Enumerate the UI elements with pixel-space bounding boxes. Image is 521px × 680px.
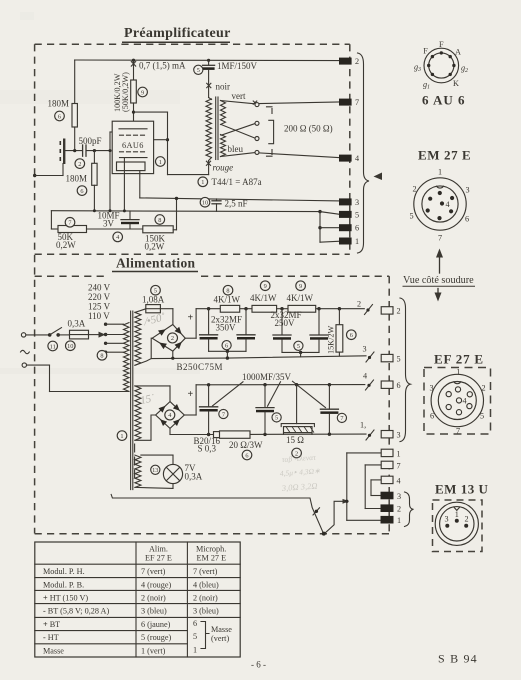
svg-text:T44/1 = A87a: T44/1 = A87a xyxy=(212,177,262,187)
pencil annotations bottom xyxy=(280,453,322,493)
svg-text:3V: 3V xyxy=(103,218,115,228)
svg-text:2: 2 xyxy=(355,57,359,66)
connection table xyxy=(35,542,240,657)
wire bus to jacks 1 xyxy=(345,453,381,520)
capacitor 1000MF second xyxy=(256,385,281,435)
svg-text:Masse: Masse xyxy=(43,647,64,656)
preamp connector pin 7 xyxy=(339,98,359,107)
svg-text:noir: noir xyxy=(216,82,231,92)
svg-text:5: 5 xyxy=(355,210,359,219)
wire chassis return xyxy=(111,495,349,536)
svg-text:4: 4 xyxy=(355,154,359,163)
output jack 2 xyxy=(357,300,401,316)
transformer T44/1 secondary coil upper xyxy=(221,101,226,125)
svg-text:8: 8 xyxy=(100,353,103,360)
resistor 4K/1W second xyxy=(250,281,277,312)
svg-text:1: 1 xyxy=(397,449,401,458)
circled ref 5 xyxy=(194,65,203,74)
svg-text:6: 6 xyxy=(430,412,434,421)
svg-text:2 (noir): 2 (noir) xyxy=(141,593,166,602)
svg-text:3: 3 xyxy=(355,198,359,207)
output jack 1 xyxy=(381,449,400,458)
preamp connector pin 4 xyxy=(339,154,359,163)
svg-text:Modul. P. B.: Modul. P. B. xyxy=(43,580,84,589)
svg-text:1,: 1, xyxy=(360,421,366,430)
svg-text:4: 4 xyxy=(397,476,401,485)
fuse 1,08A xyxy=(135,285,173,312)
switch contact xyxy=(48,328,70,337)
svg-text:3: 3 xyxy=(429,384,433,393)
pilot lamp 7V 0,3A xyxy=(135,455,203,488)
svg-text:4: 4 xyxy=(445,200,449,209)
circled ref 2 xyxy=(75,159,85,169)
voltage tap labels xyxy=(88,283,111,322)
svg-text:1: 1 xyxy=(397,516,401,525)
svg-text:2,5 nF: 2,5 nF xyxy=(225,199,248,209)
svg-text:4K/1W: 4K/1W xyxy=(214,294,241,304)
svg-text:11: 11 xyxy=(50,343,56,350)
svg-text:6: 6 xyxy=(465,215,469,224)
svg-text:Alimentation: Alimentation xyxy=(116,256,196,271)
preamp enclosure dashed border xyxy=(35,44,350,533)
svg-text:220 V: 220 V xyxy=(88,292,111,302)
svg-text:7: 7 xyxy=(68,220,71,227)
transformer BT secondary xyxy=(135,386,141,440)
svg-text:bleu: bleu xyxy=(228,144,244,154)
svg-text:9: 9 xyxy=(299,283,302,290)
tube socket EF 27 E xyxy=(424,352,491,436)
test point X 0,7 mA xyxy=(131,61,186,71)
svg-text:5: 5 xyxy=(193,632,197,641)
svg-text:6: 6 xyxy=(355,224,359,233)
svg-text:4: 4 xyxy=(462,397,466,406)
preamp connector pin 5 xyxy=(339,210,359,219)
alimentation enclosure dashed border xyxy=(35,276,390,534)
svg-text:Microph.: Microph. xyxy=(196,545,226,554)
svg-text:7: 7 xyxy=(222,411,225,418)
svg-text:A: A xyxy=(455,48,461,57)
microphone pin 3 black xyxy=(381,492,402,501)
svg-text:Masse: Masse xyxy=(211,625,232,634)
svg-text:180M: 180M xyxy=(48,99,70,109)
svg-text:1000MF/35V: 1000MF/35V xyxy=(242,372,292,382)
wire +HT top rail preamp xyxy=(75,59,340,62)
svg-text:1: 1 xyxy=(120,433,123,440)
node bleu xyxy=(221,144,255,157)
vacuum tube 6AU6 xyxy=(112,121,153,211)
svg-text:+ HT (150 V): + HT (150 V) xyxy=(43,593,88,602)
svg-text:3 (bleu): 3 (bleu) xyxy=(193,607,219,616)
wire -BT rail to jack 6 xyxy=(196,372,400,391)
microphone pin 1 black xyxy=(381,516,402,525)
svg-text:Vue côté soudure: Vue côté soudure xyxy=(403,275,474,286)
svg-text:3: 3 xyxy=(363,345,367,354)
svg-text:EF 27 E: EF 27 E xyxy=(145,554,172,563)
mains terminal lower xyxy=(22,363,124,392)
wires to pins 6 and 1 xyxy=(318,210,340,242)
svg-text:5: 5 xyxy=(409,212,413,221)
primary taps xyxy=(104,323,124,354)
svg-text:5: 5 xyxy=(197,67,200,74)
preamp connector pin 3 xyxy=(339,198,359,207)
svg-text:10: 10 xyxy=(67,343,73,350)
svg-text:7: 7 xyxy=(438,234,442,243)
output jack 5 xyxy=(363,345,401,364)
svg-text:7: 7 xyxy=(340,415,343,422)
svg-text:K: K xyxy=(453,79,459,88)
svg-text:B250C75M: B250C75M xyxy=(177,362,224,372)
svg-text:Modul. P. H.: Modul. P. H. xyxy=(43,567,85,576)
svg-text:4K/1W: 4K/1W xyxy=(287,293,314,303)
svg-text:2: 2 xyxy=(481,384,485,393)
svg-text:EF 27 E: EF 27 E xyxy=(434,352,484,367)
svg-text:7: 7 xyxy=(397,461,401,470)
svg-text:1: 1 xyxy=(455,510,459,519)
capacitor pair 2x32MF 250V xyxy=(271,309,329,357)
svg-text:+: + xyxy=(188,313,194,324)
resistor 50K/0,2W xyxy=(51,218,86,251)
svg-text:240 V: 240 V xyxy=(88,283,111,293)
circled ref 1 tube xyxy=(156,157,166,167)
title Preamplificateur xyxy=(122,26,231,42)
bridge rectifier B250C75M xyxy=(135,309,223,372)
svg-text:7 (vert): 7 (vert) xyxy=(141,567,166,576)
svg-text:9: 9 xyxy=(264,283,267,290)
svg-text:3: 3 xyxy=(397,492,401,501)
svg-text:180M: 180M xyxy=(66,174,88,184)
svg-text:125 V: 125 V xyxy=(88,302,111,312)
preamp connector brace xyxy=(358,53,370,253)
svg-text:9: 9 xyxy=(141,89,144,96)
wire secondary to pin 7 xyxy=(259,102,340,104)
svg-text:0,3A: 0,3A xyxy=(185,472,203,482)
capacitor pair 2x32MF 350V xyxy=(200,309,255,360)
svg-text:5: 5 xyxy=(480,412,484,421)
svg-text:(vert): (vert) xyxy=(211,634,229,643)
svg-text:EM 27 E: EM 27 E xyxy=(418,148,471,163)
svg-text:110 V: 110 V xyxy=(88,311,110,321)
svg-text:4 (rouge): 4 (rouge) xyxy=(141,580,172,589)
voltage selector wiper xyxy=(89,332,106,338)
wire bus jack 4 to pin3 xyxy=(371,480,381,496)
tube socket 6AU6 xyxy=(414,40,468,108)
ac symbol xyxy=(21,350,30,353)
svg-text:10: 10 xyxy=(202,200,208,207)
svg-text:vert: vert xyxy=(232,91,246,101)
svg-text:rouge: rouge xyxy=(213,163,234,173)
svg-text:4 (bleu): 4 (bleu) xyxy=(193,580,219,589)
fuse 0,3A xyxy=(68,319,89,339)
svg-text:1: 1 xyxy=(193,646,197,655)
svg-text:7: 7 xyxy=(355,98,359,107)
circled ref 10 fuse xyxy=(66,341,76,351)
svg-text:6: 6 xyxy=(193,619,197,628)
svg-text:0,7 (1,5) mA: 0,7 (1,5) mA xyxy=(139,61,186,71)
bridge rectifier B20/16 xyxy=(135,385,221,454)
wire feedback rail xyxy=(87,228,143,230)
transformer core xyxy=(131,311,135,490)
svg-text:(50K/0,2W): (50K/0,2W) xyxy=(121,72,130,112)
arrow down xyxy=(435,289,442,302)
svg-text:13: 13 xyxy=(152,467,158,474)
crossover switch wires xyxy=(221,103,259,155)
svg-text:1MF/150V: 1MF/150V xyxy=(217,61,258,71)
svg-text:500pF: 500pF xyxy=(79,136,102,146)
capacitor 10MF/3V xyxy=(98,211,140,242)
svg-text:Préamplificateur: Préamplificateur xyxy=(124,26,231,41)
wire +HT rail xyxy=(196,307,364,310)
transformer T44/1 primary xyxy=(206,99,212,158)
svg-text:4K/1W: 4K/1W xyxy=(250,293,277,303)
svg-text:6: 6 xyxy=(58,113,61,120)
output jack 7 xyxy=(381,461,400,470)
mains terminal upper xyxy=(21,333,49,337)
svg-text:1: 1 xyxy=(201,179,204,186)
capacitor 500pF coupling xyxy=(65,136,110,156)
svg-text:7: 7 xyxy=(456,427,460,436)
svg-text:3 (bleu): 3 (bleu) xyxy=(141,607,167,616)
svg-text:5: 5 xyxy=(154,288,157,295)
node rouge xyxy=(206,158,233,175)
tube socket EM 27 E xyxy=(409,148,471,243)
svg-text:0,2W: 0,2W xyxy=(145,241,165,251)
microphone pins brace xyxy=(405,492,414,527)
arrow marker right of preamp brace xyxy=(374,173,383,181)
preamp connector pin 6 xyxy=(339,224,359,233)
resistor 20 ohm/3W xyxy=(214,431,263,460)
svg-text:1: 1 xyxy=(355,237,359,246)
node noir xyxy=(207,82,230,92)
input jack xyxy=(33,139,64,178)
svg-text:1: 1 xyxy=(456,368,460,377)
svg-text:8: 8 xyxy=(158,217,161,224)
circled ref 1 transformer xyxy=(117,431,127,441)
arrow up xyxy=(436,249,443,274)
svg-text:6: 6 xyxy=(245,452,248,459)
svg-text:- HT: - HT xyxy=(43,633,59,642)
wire HT ground rail xyxy=(151,356,366,360)
capacitor 1000MF third xyxy=(320,385,346,435)
wire anode output to pin 3 xyxy=(140,197,340,201)
svg-text:0,2W: 0,2W xyxy=(56,240,76,250)
svg-text:2: 2 xyxy=(357,300,361,309)
svg-text:5: 5 xyxy=(297,343,300,350)
transformer T44/1 secondary coil lower xyxy=(221,135,226,157)
svg-text:1 (vert): 1 (vert) xyxy=(141,647,166,656)
resistor 15K/2W xyxy=(327,309,357,356)
circled ref 8 selector xyxy=(97,351,107,361)
svg-text:6: 6 xyxy=(80,188,83,195)
svg-text:Alim.: Alim. xyxy=(149,545,168,554)
svg-text:2: 2 xyxy=(464,515,468,524)
svg-text:2 (noir): 2 (noir) xyxy=(193,593,218,602)
title Alimentation xyxy=(112,256,198,272)
transformer T44/1 core xyxy=(216,97,218,160)
preamp connector pin 2 xyxy=(339,57,359,66)
wire primary bottom xyxy=(124,390,129,392)
svg-text:S 0,3: S 0,3 xyxy=(198,443,217,453)
svg-text:2: 2 xyxy=(397,505,401,514)
svg-text:15K/2W: 15K/2W xyxy=(327,326,336,354)
tube socket EM 13 U xyxy=(433,482,489,552)
resistor 180M (grid leak lower) xyxy=(66,151,98,211)
resistor 100K/0,2W anode load xyxy=(113,60,147,129)
preamp connector pin 1 xyxy=(339,237,359,246)
wire anode to transformer xyxy=(132,111,209,175)
alim connector brace xyxy=(400,298,410,442)
svg-text:4: 4 xyxy=(363,372,367,381)
label 1000MF/35V with leaders xyxy=(213,372,326,408)
svg-text:2: 2 xyxy=(78,161,81,168)
svg-text:20 Ω/3W: 20 Ω/3W xyxy=(229,440,263,450)
svg-text:- 6 -: - 6 - xyxy=(251,660,266,670)
circled ref 11 switch xyxy=(48,341,58,351)
svg-text:2: 2 xyxy=(412,185,416,194)
output jack 3 xyxy=(360,421,401,441)
svg-text:200 Ω (50 Ω): 200 Ω (50 Ω) xyxy=(284,124,333,134)
capacitor 1000MF first xyxy=(200,385,228,435)
svg-text:2: 2 xyxy=(171,335,174,342)
wire cathode rail to pin 5 xyxy=(51,209,320,229)
svg-text:- BT (5,8 V; 0,28 A): - BT (5,8 V; 0,28 A) xyxy=(43,607,109,616)
svg-text:1: 1 xyxy=(438,168,442,177)
svg-text:5: 5 xyxy=(397,355,401,364)
transformer primary winding xyxy=(124,323,130,392)
capacitor 2,5 nF xyxy=(200,197,247,211)
label Vue cote soudure xyxy=(403,275,476,286)
resistor 150K/0,2W xyxy=(143,198,177,251)
svg-text:F: F xyxy=(439,40,444,49)
capacitor 1MF/150V xyxy=(203,60,258,97)
svg-text:5 (rouge): 5 (rouge) xyxy=(141,633,172,642)
svg-text:250V: 250V xyxy=(275,318,296,328)
svg-text:6 (jaune): 6 (jaune) xyxy=(141,620,171,629)
transformer label T44/1 = A87a xyxy=(198,177,262,187)
resistor 4K/1W first xyxy=(214,285,241,312)
wire cap to primary top xyxy=(209,98,212,100)
svg-text:1,08A: 1,08A xyxy=(142,295,165,305)
svg-text:6 AU 6: 6 AU 6 xyxy=(422,93,466,108)
svg-text:15 Ω: 15 Ω xyxy=(286,435,304,445)
svg-text:2: 2 xyxy=(397,307,401,316)
transformer lamp secondary xyxy=(135,455,141,487)
svg-text:EM 27 E: EM 27 E xyxy=(197,554,227,563)
wire bus jack 7 to pin2 xyxy=(365,465,381,509)
svg-text:3: 3 xyxy=(444,515,448,524)
svg-text:350V: 350V xyxy=(216,322,237,332)
svg-text:6: 6 xyxy=(225,343,228,350)
svg-text:5: 5 xyxy=(275,415,278,422)
svg-text:3: 3 xyxy=(465,186,469,195)
svg-text:+: + xyxy=(188,389,194,400)
svg-text:3: 3 xyxy=(397,431,401,440)
wire secondary to pin 4 xyxy=(259,153,340,158)
svg-text:6: 6 xyxy=(350,332,353,339)
svg-text:6: 6 xyxy=(397,381,401,390)
svg-text:EM 13 U: EM 13 U xyxy=(435,482,488,497)
svg-text:1: 1 xyxy=(159,159,162,166)
resistor 4K/1W third xyxy=(287,281,316,312)
svg-text:6AU6: 6AU6 xyxy=(122,141,144,150)
transformer HT secondary xyxy=(135,312,141,365)
wire BT ground rail xyxy=(170,433,366,437)
impedance bracket 200 ohm xyxy=(267,107,333,156)
svg-text:7 (vert): 7 (vert) xyxy=(193,567,218,576)
node vert xyxy=(221,91,257,104)
potentiometer 15 ohm xyxy=(281,385,314,458)
wire grid node xyxy=(109,132,113,211)
svg-text:S B 94: S B 94 xyxy=(438,652,478,666)
output jack 4 xyxy=(381,476,400,485)
svg-text:F: F xyxy=(423,47,428,56)
resistor R 180M (grid leak upper) xyxy=(48,60,78,151)
microphone pin 2 black xyxy=(381,504,402,513)
svg-text:0,3A: 0,3A xyxy=(68,319,86,329)
svg-text:+ BT: + BT xyxy=(43,620,60,629)
